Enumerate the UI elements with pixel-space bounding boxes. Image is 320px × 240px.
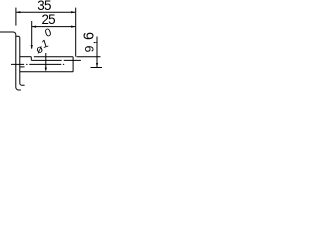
svg-text:6: 6	[82, 32, 98, 40]
pin end face	[72, 57, 74, 72]
housing top edge	[0, 32, 16, 35]
housing wall left edge A	[16, 35, 21, 90]
dimension 35 line	[16, 11, 75, 13]
arrowhead 9,6 down	[96, 63, 98, 67]
vertical dimension line v5	[45, 53, 47, 70]
arrowhead v5 down	[45, 68, 47, 72]
pin bottom edge	[20, 71, 73, 73]
upper centerline	[31, 59, 81, 61]
arrowhead 35 right	[71, 11, 75, 13]
dimension 35 extension line right (shared with 25)	[75, 8, 77, 57]
housing wall right edge B	[20, 38, 25, 85]
arrowhead 35 left	[16, 11, 20, 13]
pin small section top edge	[34, 56, 73, 58]
dimension 35 extension line left	[15, 8, 17, 26]
9,6 bottom extension line	[91, 67, 103, 69]
step between sections	[30, 57, 32, 61]
dia 9,6 dimension vertical line	[96, 37, 98, 68]
lower centerline	[11, 63, 64, 65]
svg-text:35: 35	[37, 0, 51, 13]
svg-text:25: 25	[41, 12, 55, 27]
short hidden edge	[20, 66, 25, 68]
svg-text:9: 9	[83, 45, 97, 52]
arrowhead 25 right	[71, 26, 75, 28]
svg-text:,: ,	[84, 41, 98, 44]
dimension 25 line	[32, 26, 75, 28]
step top edge	[16, 36, 20, 38]
pin large section top edge	[20, 56, 32, 58]
arrowhead 25 left	[32, 26, 36, 28]
9,6 top extension line	[77, 56, 101, 58]
arrowhead dia10 down	[31, 45, 33, 49]
dimension 25 left extension / dia10 dimension line	[31, 21, 33, 49]
